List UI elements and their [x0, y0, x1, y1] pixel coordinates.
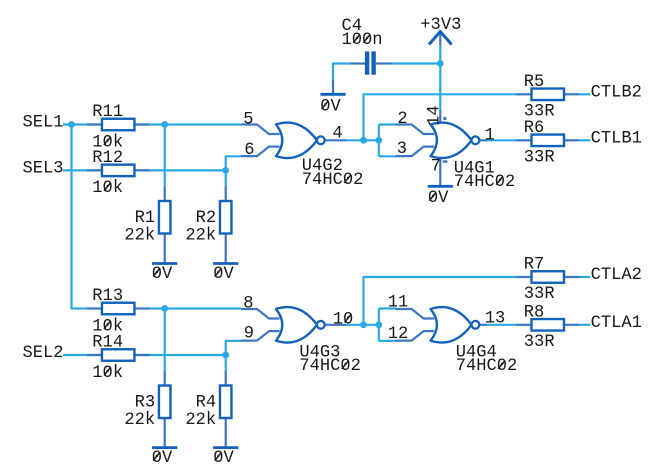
svg-text:R2: R2 — [196, 209, 217, 228]
svg-text:R4: R4 — [196, 393, 217, 412]
svg-text:100n: 100n — [342, 31, 383, 50]
svg-text:R12: R12 — [92, 149, 123, 168]
svg-text:5: 5 — [243, 110, 253, 129]
svg-text:22k: 22k — [185, 226, 216, 245]
svg-text:+3V3: +3V3 — [420, 16, 461, 35]
svg-text:33R: 33R — [524, 285, 555, 304]
svg-text:R6: R6 — [524, 119, 545, 138]
svg-text:R7: R7 — [524, 256, 545, 275]
svg-text:4: 4 — [332, 125, 342, 144]
svg-text:SEL3: SEL3 — [23, 160, 64, 179]
svg-text:22k: 22k — [124, 226, 155, 245]
svg-text:33R: 33R — [524, 333, 555, 352]
svg-text:SEL2: SEL2 — [23, 344, 64, 363]
svg-text:CTLB2: CTLB2 — [591, 84, 642, 103]
svg-text:10k: 10k — [92, 364, 123, 383]
svg-text:33R: 33R — [524, 149, 555, 168]
svg-text:74HC02: 74HC02 — [299, 357, 361, 376]
svg-text:R14: R14 — [92, 334, 123, 353]
svg-text:9: 9 — [244, 325, 254, 344]
svg-text:R3: R3 — [135, 393, 156, 412]
svg-text:7: 7 — [431, 157, 441, 176]
svg-text:CTLA1: CTLA1 — [591, 314, 642, 333]
svg-text:74HC02: 74HC02 — [454, 173, 516, 192]
svg-text:R1: R1 — [135, 209, 156, 228]
svg-text:R8: R8 — [524, 304, 545, 323]
svg-text:11: 11 — [388, 293, 409, 312]
svg-text:CTLA2: CTLA2 — [591, 266, 642, 285]
svg-text:22k: 22k — [185, 411, 216, 430]
svg-text:CTLB1: CTLB1 — [591, 130, 642, 149]
svg-text:13: 13 — [485, 309, 506, 328]
svg-text:74HC02: 74HC02 — [456, 357, 518, 376]
svg-text:10k: 10k — [92, 179, 123, 198]
svg-text:8: 8 — [243, 294, 253, 313]
svg-text:3: 3 — [397, 140, 407, 159]
svg-text:R13: R13 — [92, 287, 123, 306]
svg-text:1: 1 — [485, 126, 495, 145]
svg-text:R11: R11 — [92, 103, 123, 122]
svg-text:10: 10 — [333, 311, 354, 330]
svg-text:22k: 22k — [124, 411, 155, 430]
svg-text:R5: R5 — [524, 73, 545, 92]
svg-text:14: 14 — [426, 105, 445, 126]
svg-text:2: 2 — [397, 110, 407, 129]
svg-text:74HC02: 74HC02 — [302, 171, 364, 190]
svg-text:12: 12 — [388, 325, 409, 344]
svg-text:6: 6 — [244, 141, 254, 160]
svg-text:SEL1: SEL1 — [23, 113, 64, 132]
